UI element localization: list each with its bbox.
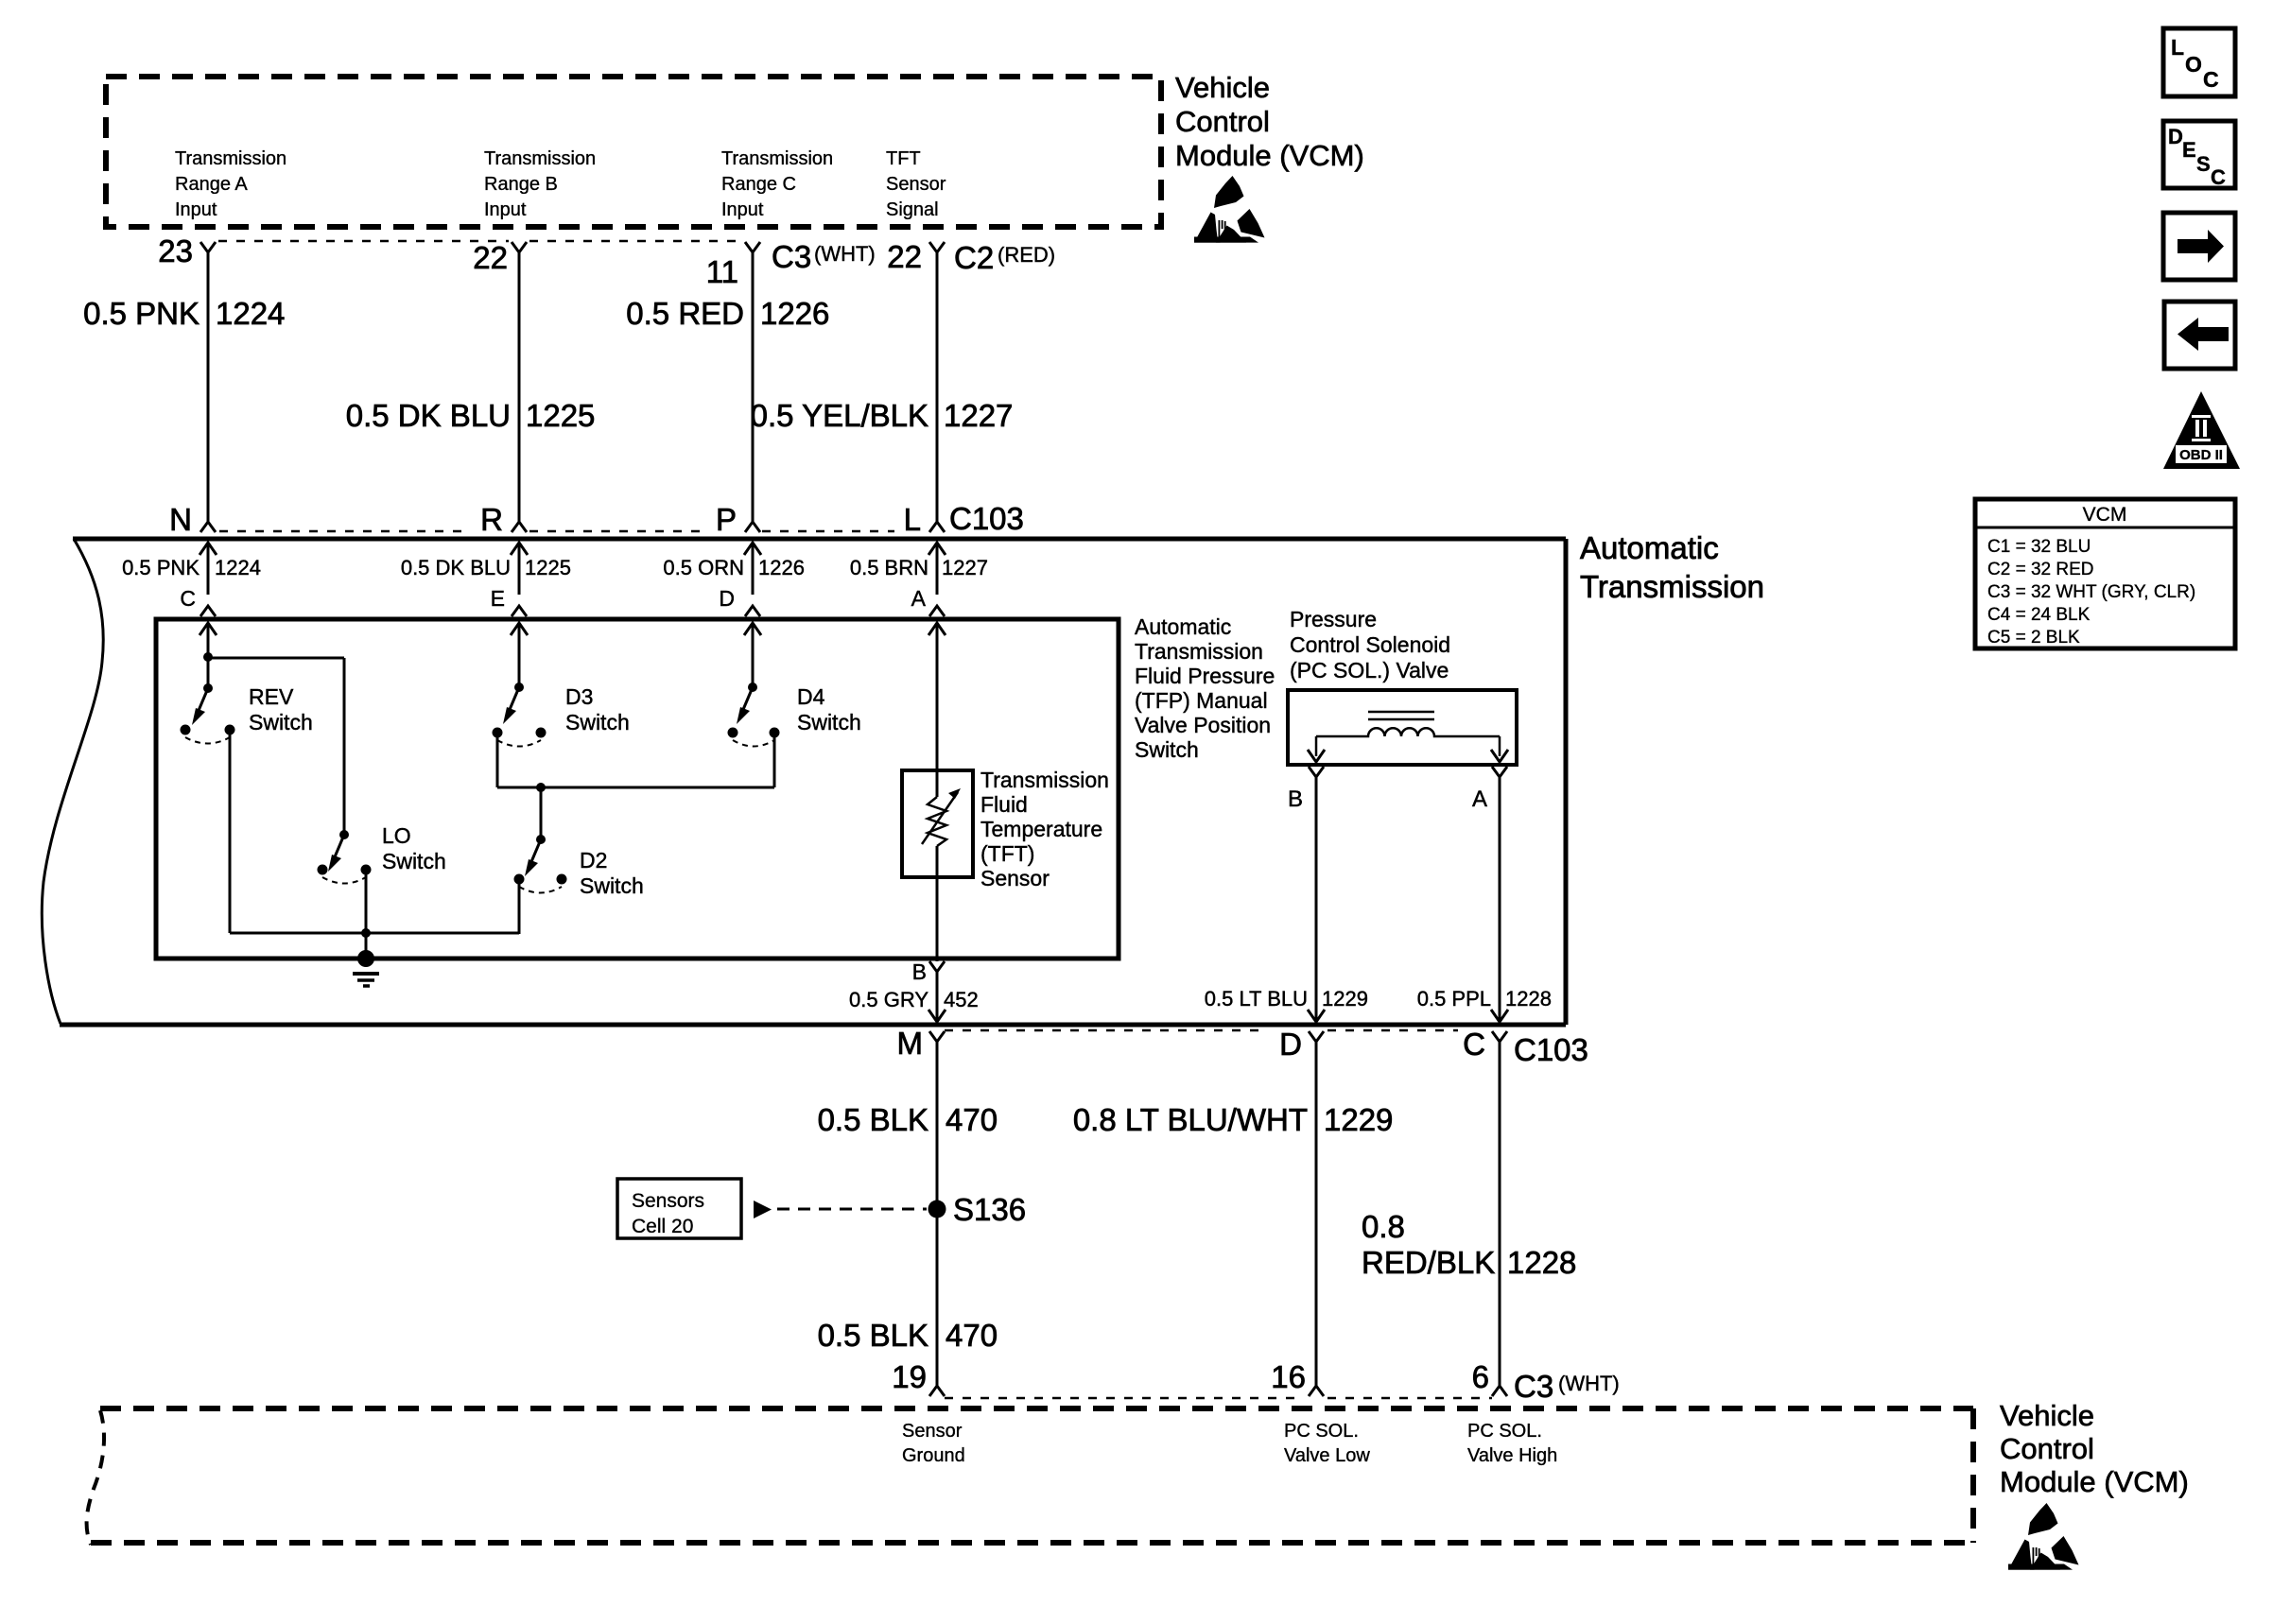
REV switch dashed arc xyxy=(185,737,230,744)
wire to D3 switch xyxy=(518,625,521,687)
svg-text:Sensor: Sensor xyxy=(980,866,1050,890)
wire to D4 switch xyxy=(752,625,755,687)
svg-text:11: 11 xyxy=(706,254,738,289)
wire to ground xyxy=(365,933,368,959)
svg-text:Control Solenoid: Control Solenoid xyxy=(1290,632,1450,657)
svg-text:C103: C103 xyxy=(1514,1032,1588,1067)
fork pin B (TFP box exit) xyxy=(929,961,945,972)
LO switch dashed arc xyxy=(322,877,366,884)
svg-text:Fluid: Fluid xyxy=(980,792,1028,817)
D4 switch dashed arc xyxy=(733,740,774,747)
svg-text:Control: Control xyxy=(1175,105,1270,138)
svg-text:470: 470 xyxy=(946,1102,998,1137)
svg-text:452: 452 xyxy=(944,988,979,1011)
svg-text:(WHT): (WHT) xyxy=(1558,1372,1620,1395)
D3 switch dashed arc xyxy=(497,740,541,747)
ground symbol xyxy=(353,974,379,986)
svg-text:S136: S136 xyxy=(953,1192,1026,1227)
svg-text:REV: REV xyxy=(249,684,294,709)
svg-text:Sensor: Sensor xyxy=(886,174,946,195)
transmission box right border xyxy=(1564,539,1569,1025)
svg-text:A: A xyxy=(1472,786,1487,812)
svg-text:22: 22 xyxy=(473,240,508,275)
dashed link to S136 xyxy=(777,1208,927,1211)
ground connection dot xyxy=(357,950,374,967)
fork at TFP switch boundary xyxy=(929,606,945,616)
wire D2 contact down xyxy=(518,884,521,934)
C103 fork pin P xyxy=(745,522,760,532)
REV switch arm xyxy=(192,688,208,725)
svg-text:1229: 1229 xyxy=(1322,987,1368,1011)
svg-text:(TFT): (TFT) xyxy=(980,841,1034,866)
D2 switch right contact xyxy=(557,874,567,885)
svg-text:0.5 DK BLU: 0.5 DK BLU xyxy=(346,398,511,433)
svg-text:0.5 BLK: 0.5 BLK xyxy=(818,1102,928,1137)
fork at TFP switch boundary xyxy=(512,606,527,616)
svg-text:0.5 BLK: 0.5 BLK xyxy=(818,1318,928,1353)
arrow into TFP switch xyxy=(511,623,528,635)
svg-text:Range C: Range C xyxy=(721,174,796,195)
svg-text:0.5 PNK: 0.5 PNK xyxy=(83,296,200,331)
svg-text:Vehicle: Vehicle xyxy=(2000,1399,2094,1432)
svg-text:TFT: TFT xyxy=(886,148,921,169)
ESD sensitive symbol (top) xyxy=(1194,176,1265,243)
svg-text:B: B xyxy=(912,959,927,984)
C103 fork pin D xyxy=(1309,1031,1324,1042)
transmission box top border xyxy=(73,537,1566,542)
Sensors Cell 20 box xyxy=(617,1179,741,1238)
svg-text:6: 6 xyxy=(1472,1359,1489,1394)
wire 1228 PPL xyxy=(1499,777,1501,1022)
wire down to LO switch xyxy=(343,658,346,835)
wire 1224 PNK (upper) xyxy=(207,252,210,522)
svg-text:D2: D2 xyxy=(580,848,607,872)
wire up to D4 right contact xyxy=(773,737,776,787)
svg-text:(PC SOL.) Valve: (PC SOL.) Valve xyxy=(1290,658,1449,682)
arrow solenoid pin B xyxy=(1308,750,1325,762)
VCM table rows xyxy=(1987,537,2195,648)
svg-text:1228: 1228 xyxy=(1507,1245,1576,1280)
svg-text:19: 19 xyxy=(892,1359,927,1394)
connector dashed line (VCM pins, right segment) xyxy=(529,240,742,243)
svg-text:L: L xyxy=(2171,35,2184,60)
D3 switch right contact xyxy=(536,728,547,738)
svg-text:Valve High: Valve High xyxy=(1467,1445,1557,1466)
arrow into transmission wire 1225 xyxy=(511,543,528,555)
icon box LOC xyxy=(2163,28,2235,96)
svg-text:0.5 DK BLU: 0.5 DK BLU xyxy=(401,556,511,579)
wire D3-D4 link xyxy=(497,786,774,789)
svg-text:E: E xyxy=(2182,138,2196,162)
svg-text:0.5 RED: 0.5 RED xyxy=(626,296,744,331)
arrow wire 452 to C103 xyxy=(928,1010,946,1022)
svg-text:C: C xyxy=(180,586,196,611)
wire 1229 LT BLU xyxy=(1315,777,1318,1022)
port label PC SOL. Valve Low xyxy=(1284,1421,1370,1466)
C103 fork pin R xyxy=(512,522,527,532)
svg-text:Switch: Switch xyxy=(249,710,313,734)
fork solenoid pin A xyxy=(1492,767,1507,777)
D2 switch left contact xyxy=(514,874,525,885)
D4 switch left contact xyxy=(728,728,738,738)
wire down to D2 switch xyxy=(540,787,543,839)
svg-text:C103: C103 xyxy=(949,501,1024,536)
D3 switch pivot xyxy=(514,682,524,692)
svg-text:R: R xyxy=(480,502,503,537)
svg-text:D: D xyxy=(719,586,735,611)
VCM connector table box xyxy=(1975,499,2235,648)
svg-text:OBD II: OBD II xyxy=(2179,447,2223,463)
svg-text:1224: 1224 xyxy=(215,556,261,579)
VCM module box (bottom, dashed) xyxy=(100,1406,1973,1411)
svg-text:M: M xyxy=(897,1026,924,1061)
svg-text:A: A xyxy=(911,586,927,611)
svg-text:16: 16 xyxy=(1271,1359,1306,1394)
port label Transmission Range C Input xyxy=(721,148,833,220)
C103 dashed line seg 3 xyxy=(762,530,894,533)
LO switch right contact xyxy=(361,865,372,875)
svg-text:Control: Control xyxy=(2000,1432,2094,1465)
solenoid coil xyxy=(1316,712,1500,756)
LO switch pivot xyxy=(339,830,349,839)
C103 fork pin L xyxy=(929,522,945,532)
D4 switch pivot xyxy=(748,682,757,692)
svg-text:Cell 20: Cell 20 xyxy=(632,1216,693,1237)
svg-text:E: E xyxy=(491,586,505,611)
icon box DESC xyxy=(2163,121,2235,188)
wire 1229 LT BLU/WHT xyxy=(1315,1042,1318,1386)
svg-text:Input: Input xyxy=(484,199,527,220)
REV switch right contact xyxy=(225,725,235,735)
arrow into transmission wire 1224 xyxy=(200,543,217,555)
svg-text:Range A: Range A xyxy=(175,174,248,195)
svg-text:Switch: Switch xyxy=(580,873,644,898)
C103 fork pin M xyxy=(929,1031,945,1042)
wire TFT to pin B xyxy=(936,846,939,961)
fork pin 6 xyxy=(1492,1386,1507,1396)
svg-text:D: D xyxy=(2168,125,2183,148)
arrow into transmission wire 1227 xyxy=(928,543,946,555)
wire to TFT sensor xyxy=(936,625,939,797)
svg-text:C4 = 24 BLK: C4 = 24 BLK xyxy=(1987,605,2091,625)
svg-text:1227: 1227 xyxy=(942,556,988,579)
connector fork pin 11 xyxy=(745,242,760,252)
connector fork pin 23 xyxy=(200,242,216,252)
svg-text:C1 = 32 BLU: C1 = 32 BLU xyxy=(1987,537,2091,557)
svg-text:C3: C3 xyxy=(772,239,811,274)
wire 1225 DK BLU (upper) xyxy=(518,252,521,522)
wire 1226 RED (upper) xyxy=(752,252,755,522)
D3 switch left contact xyxy=(493,728,503,738)
fork at TFP switch boundary xyxy=(200,606,216,616)
C103 fork pin C xyxy=(1492,1031,1507,1042)
REV switch left contact xyxy=(181,725,191,735)
svg-text:C2 = 32 RED: C2 = 32 RED xyxy=(1987,560,2093,579)
svg-text:1226: 1226 xyxy=(760,296,829,331)
svg-text:Input: Input xyxy=(721,199,764,220)
svg-text:1224: 1224 xyxy=(216,296,285,331)
wire 1227 YEL/BLK (upper) xyxy=(936,252,939,522)
svg-text:Module (VCM): Module (VCM) xyxy=(1175,139,1364,172)
svg-text:(WHT): (WHT) xyxy=(814,242,876,266)
arrow into TFP switch xyxy=(928,623,946,635)
svg-text:LO: LO xyxy=(382,823,411,848)
svg-text:1229: 1229 xyxy=(1324,1102,1393,1137)
svg-text:1225: 1225 xyxy=(526,398,595,433)
arrow solenoid pin A xyxy=(1491,750,1508,762)
wire LO contact down xyxy=(365,874,368,933)
svg-text:Valve Position: Valve Position xyxy=(1135,713,1271,737)
svg-text:1227: 1227 xyxy=(944,398,1013,433)
svg-text:C3: C3 xyxy=(1514,1369,1553,1404)
TFT thermistor symbol xyxy=(922,788,961,846)
D3 switch arm xyxy=(503,687,519,724)
svg-text:(RED): (RED) xyxy=(998,243,1055,267)
svg-text:470: 470 xyxy=(946,1318,998,1353)
svg-text:0.5 PNK: 0.5 PNK xyxy=(122,556,200,579)
arrow into TFP switch xyxy=(200,623,217,635)
svg-text:22: 22 xyxy=(887,239,922,274)
icon box arrow right xyxy=(2163,213,2235,280)
svg-text:0.5 LT BLU: 0.5 LT BLU xyxy=(1205,987,1308,1011)
connector fork pin 22 xyxy=(512,242,527,252)
svg-text:D4: D4 xyxy=(797,684,825,709)
svg-text:C2: C2 xyxy=(954,240,994,275)
port label Transmission Range B Input xyxy=(484,148,596,220)
junction node D2 branch xyxy=(536,783,546,792)
wire to LO switch branch xyxy=(208,657,344,660)
svg-text:Vehicle: Vehicle xyxy=(1175,71,1270,104)
C103 dashed line seg 2 xyxy=(529,530,703,533)
junction node xyxy=(203,652,213,662)
transmission box torn-edge left border xyxy=(42,539,103,1024)
label Pressure Control Solenoid (PC SOL.) Valve xyxy=(1290,607,1450,682)
TFP manual valve position switch box xyxy=(156,619,1119,959)
ESD sensitive symbol (bottom) xyxy=(2008,1503,2079,1570)
svg-text:Signal: Signal xyxy=(886,199,939,220)
svg-text:Input: Input xyxy=(175,199,217,220)
arrow into TFP switch xyxy=(744,623,761,635)
LO switch left contact xyxy=(318,865,328,875)
svg-text:Switch: Switch xyxy=(1135,737,1199,762)
svg-text:D: D xyxy=(1279,1027,1302,1062)
port label TFT Sensor Signal xyxy=(886,148,946,220)
svg-text:RED/BLK: RED/BLK xyxy=(1362,1245,1495,1280)
wire switch common xyxy=(230,932,519,935)
svg-text:Pressure: Pressure xyxy=(1290,607,1377,631)
wire to REV switch xyxy=(207,625,210,688)
C3 bottom dashed line seg 1 xyxy=(945,1397,1303,1400)
svg-text:O: O xyxy=(2185,52,2202,77)
svg-text:Switch: Switch xyxy=(382,849,446,873)
PC solenoid valve box xyxy=(1288,690,1517,765)
C103 fork pin N xyxy=(200,522,216,532)
svg-text:0.5 BRN: 0.5 BRN xyxy=(850,556,928,579)
wire 470 BLK xyxy=(936,1042,939,1386)
arrow into transmission wire 1226 xyxy=(744,543,761,555)
connector fork pin 22 C2 xyxy=(929,242,945,252)
svg-text:Automatic: Automatic xyxy=(1580,530,1719,565)
port label Transmission Range A Input xyxy=(175,148,286,220)
transmission box bottom border xyxy=(60,1023,1566,1028)
port label PC SOL. Valve High xyxy=(1467,1421,1557,1466)
svg-text:Ground: Ground xyxy=(902,1445,965,1466)
svg-text:0.5 ORN: 0.5 ORN xyxy=(663,556,744,579)
svg-text:Transmission: Transmission xyxy=(1135,639,1263,664)
fork pin 16 xyxy=(1309,1386,1324,1396)
svg-text:D3: D3 xyxy=(565,684,593,709)
svg-text:L: L xyxy=(904,502,921,537)
svg-text:Switch: Switch xyxy=(565,710,630,734)
wire REV contact down xyxy=(229,734,232,933)
svg-text:B: B xyxy=(1288,786,1303,812)
D4 switch right contact xyxy=(770,728,780,738)
D2 switch dashed arc xyxy=(519,887,562,893)
svg-text:Sensor: Sensor xyxy=(902,1421,963,1442)
splice S136 xyxy=(928,1201,946,1218)
C103 bottom dashed line seg 2 xyxy=(1327,1029,1458,1032)
label Transmission Fluid Temperature (TFT) Sensor xyxy=(980,768,1109,890)
label Automatic Transmission Fluid Pressure (TFP) Manual Valve Position Switch xyxy=(1135,614,1275,762)
svg-text:VCM: VCM xyxy=(2083,504,2127,526)
icon OBD II triangle xyxy=(2163,391,2240,469)
svg-text:PC SOL.: PC SOL. xyxy=(1284,1421,1359,1442)
svg-text:C5 = 2 BLK: C5 = 2 BLK xyxy=(1987,628,2080,648)
svg-text:Transmission: Transmission xyxy=(175,148,286,169)
wire D3 contact down xyxy=(496,737,499,787)
svg-text:P: P xyxy=(716,502,737,537)
D2 switch arm xyxy=(525,839,541,876)
svg-text:Range B: Range B xyxy=(484,174,558,195)
svg-text:0.8 LT BLU/WHT: 0.8 LT BLU/WHT xyxy=(1073,1102,1308,1137)
svg-text:S: S xyxy=(2196,152,2211,176)
svg-text:Transmission: Transmission xyxy=(980,768,1109,792)
svg-text:PC SOL.: PC SOL. xyxy=(1467,1421,1542,1442)
port label Sensor Ground xyxy=(902,1421,965,1466)
svg-text:23: 23 xyxy=(158,233,193,268)
arrow wire 1228 to C103 xyxy=(1491,1010,1508,1022)
svg-text:(TFP) Manual: (TFP) Manual xyxy=(1135,688,1268,713)
wire 1228 RED/BLK xyxy=(1499,1042,1501,1386)
connector dashed line (VCM pins, left segment) xyxy=(218,240,509,243)
arrow wire 1229 to C103 xyxy=(1308,1010,1325,1022)
svg-text:Sensors: Sensors xyxy=(632,1190,704,1212)
C103 dashed line seg 1 xyxy=(219,530,471,533)
LO switch arm xyxy=(328,835,344,872)
C3 bottom dashed line seg 2 xyxy=(1327,1397,1492,1400)
svg-text:C: C xyxy=(2203,67,2219,92)
svg-text:Transmission: Transmission xyxy=(484,148,596,169)
fork pin 19 xyxy=(929,1386,945,1396)
svg-text:1228: 1228 xyxy=(1505,987,1552,1011)
D4 switch arm xyxy=(737,687,753,724)
VCM table header divider xyxy=(1975,527,2235,529)
svg-text:Switch: Switch xyxy=(797,710,861,734)
svg-text:Automatic: Automatic xyxy=(1135,614,1231,639)
arrowhead to S136 xyxy=(754,1201,772,1218)
svg-text:Temperature: Temperature xyxy=(980,817,1102,841)
fork solenoid pin B xyxy=(1309,767,1324,777)
svg-text:N: N xyxy=(169,502,192,537)
svg-text:0.5 PPL: 0.5 PPL xyxy=(1417,987,1491,1011)
svg-text:C3 = 32 WHT (GRY, CLR): C3 = 32 WHT (GRY, CLR) xyxy=(1987,582,2195,602)
svg-text:0.5 GRY: 0.5 GRY xyxy=(849,988,928,1011)
svg-text:Transmission: Transmission xyxy=(1580,569,1764,604)
svg-text:1225: 1225 xyxy=(525,556,571,579)
svg-text:C: C xyxy=(2211,165,2226,189)
fork at TFP switch boundary xyxy=(745,606,760,616)
svg-text:1226: 1226 xyxy=(758,556,805,579)
junction node ground branch xyxy=(361,928,371,938)
svg-text:Valve Low: Valve Low xyxy=(1284,1445,1370,1466)
svg-text:Transmission: Transmission xyxy=(721,148,833,169)
wire pin B down xyxy=(936,972,939,1022)
D2 switch pivot xyxy=(536,835,546,844)
C103 bottom dashed line seg 1 xyxy=(945,1029,1266,1032)
svg-text:Fluid Pressure: Fluid Pressure xyxy=(1135,664,1275,688)
VCM module box (top, dashed) xyxy=(106,77,1161,227)
svg-text:0.8: 0.8 xyxy=(1362,1209,1405,1244)
TFT sensor box xyxy=(902,770,973,877)
svg-text:Module (VCM): Module (VCM) xyxy=(2000,1465,2189,1498)
REV switch pivot xyxy=(203,683,213,693)
svg-text:0.5 YEL/BLK: 0.5 YEL/BLK xyxy=(751,398,928,433)
icon box arrow left xyxy=(2164,302,2235,369)
svg-text:C: C xyxy=(1463,1027,1485,1062)
